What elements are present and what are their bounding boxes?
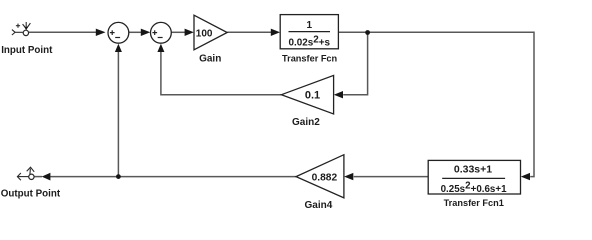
arrowhead into Gain2 — [334, 91, 343, 98]
wire Gain4 output to Output Point — [50, 176, 296, 178]
junction dot on top wire — [365, 30, 370, 35]
wire Gain2 output to sum2 bottom — [161, 52, 282, 95]
svg-text:Gain4: Gain4 — [305, 200, 333, 211]
wire Transfer Fcn1 output to Gain4 input — [354, 176, 429, 178]
svg-text:Transfer Fcn1: Transfer Fcn1 — [444, 198, 504, 208]
gain block Gain (100) — [194, 15, 227, 64]
arrowhead into Transfer Fcn1 — [521, 173, 530, 180]
output point symbol — [17, 167, 34, 180]
input point symbol — [12, 22, 31, 36]
arrowhead into sum2 — [141, 29, 151, 36]
arrowhead into Output Point — [42, 173, 51, 181]
junction dot on bottom wire — [116, 174, 121, 179]
gain block Gain4 (0.882) — [296, 155, 344, 212]
svg-text:Gain2: Gain2 — [292, 117, 320, 128]
svg-text:Transfer Fcn: Transfer Fcn — [282, 54, 338, 64]
input point arrowhead — [24, 27, 28, 31]
svg-text:1: 1 — [307, 20, 313, 31]
gain block Gain2 (0.1) — [281, 75, 333, 128]
svg-text:0.33s+1: 0.33s+1 — [454, 163, 492, 175]
wire Transfer Fcn to right corner down to Transfer Fcn1 — [338, 32, 534, 176]
arrowhead up into sum1 bottom — [115, 44, 122, 52]
wire branch down to Gain2 input — [343, 32, 367, 94]
arrowhead into Transfer Fcn — [271, 29, 280, 36]
transfer function block Transfer Fcn — [280, 15, 338, 64]
arrowhead into sum1 — [96, 29, 106, 36]
wire sum1 to sum2 — [129, 31, 142, 33]
wire stub at output point — [34, 176, 42, 178]
wire sum2 to Gain — [171, 31, 185, 33]
wire input to sum1 — [29, 31, 97, 33]
svg-text:0.1: 0.1 — [305, 90, 320, 102]
svg-text:Input Point: Input Point — [1, 45, 53, 56]
sum junction 2 — [151, 22, 172, 43]
svg-text:100: 100 — [196, 28, 213, 39]
sum junction 1 — [108, 22, 129, 43]
transfer function block Transfer Fcn1 — [428, 160, 520, 208]
svg-text:0.882: 0.882 — [312, 173, 338, 184]
wire branch up to sum1 bottom — [117, 52, 119, 177]
svg-text:Gain: Gain — [199, 54, 221, 65]
arrowhead up into sum2 bottom — [157, 44, 164, 52]
svg-text:Output Point: Output Point — [1, 188, 61, 199]
arrowhead into Gain — [185, 29, 194, 36]
arrowhead into Gain4 — [344, 173, 353, 180]
wire Gain to Transfer Fcn — [227, 31, 271, 33]
